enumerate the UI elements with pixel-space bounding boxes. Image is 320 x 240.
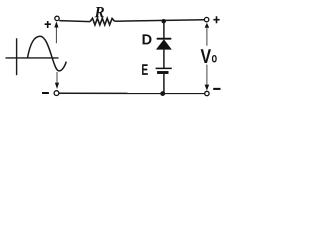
minus sign bottom-left [42, 92, 49, 94]
battery E positive long plate [156, 67, 172, 69]
wire top (source to resistor) [59, 21, 90, 22]
wire branch (junction to diode) [163, 21, 165, 38]
source polarity arrow down head [55, 83, 59, 89]
node junction bottom [160, 91, 165, 96]
resistor R1 value label R [95, 7, 104, 17]
resistor R1 zigzag [90, 18, 115, 25]
minus sign bottom-right [213, 88, 220, 90]
battery E label [142, 64, 148, 75]
output voltage label Vo [201, 49, 211, 63]
terminal bottom-right [205, 91, 209, 95]
terminal top-right [204, 17, 208, 21]
source polarity arrow up shaft [55, 27, 57, 43]
plus sign top-right [213, 16, 219, 23]
output voltage arrow down shaft [206, 65, 208, 85]
wire top (resistor to output terminal) [115, 20, 205, 22]
diode D triangle [157, 40, 172, 50]
output voltage arrow up shaft [206, 27, 208, 46]
node junction top [162, 19, 166, 23]
wire (diode to battery) [163, 49, 165, 68]
AC source sine waveform [28, 36, 67, 71]
terminal bottom-left [54, 91, 59, 96]
diode D label [143, 34, 152, 44]
source polarity arrow down shaft [56, 72, 58, 83]
terminal top-left [55, 16, 59, 20]
wire (battery to bottom junction) [163, 74, 165, 94]
wire bottom [59, 92, 204, 94]
AC source vertical axis [16, 38, 18, 75]
diode D cathode bar [157, 38, 172, 40]
source polarity arrow up head [54, 21, 58, 27]
battery E negative short thick plate [157, 71, 168, 74]
output voltage arrow up head [205, 23, 210, 28]
plus sign top-left [45, 21, 51, 28]
AC source horizontal axis [6, 57, 59, 59]
output voltage arrow down head [205, 85, 210, 91]
